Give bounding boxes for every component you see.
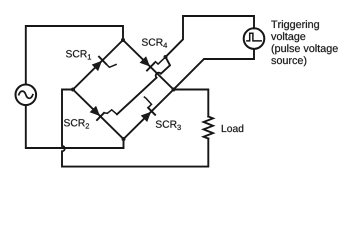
wire: bridge left node to bottom rail (hop over AC rail) to load bottom [62,90,208,167]
wire: AC top lead, top rail, down to bridge top node [26,26,123,84]
wire: AC bottom lead, lower rail to bridge bottom node [26,105,124,148]
SCR1 cathode bar [99,57,106,64]
bridge diamond wires (sides carry SCR1 top-left, SCR2 bottom-left, SCR3 bottom-right, SCR4 top-right) [73,40,174,139]
SCR2 cathode bar [97,113,104,120]
label Triggering voltage line 2 [271,32,305,42]
junction dot: bridge right node [172,88,176,92]
junction dot: gate wire junction [164,55,168,59]
SCR1 thyristor triangle [92,61,102,71]
SCR3 thyristor triangle [141,112,151,122]
label SCR2 [64,119,89,128]
SCR4 thyristor triangle [140,56,150,66]
label SCR4 [142,39,167,48]
SCR4 gate lead [154,57,166,64]
pulse source U1 (triggering voltage) [244,28,265,49]
label Triggering voltage line 3 [272,44,338,54]
junction dot: bridge bottom node [122,137,126,141]
junction dot: bridge left node [71,88,75,92]
label Triggering voltage line 1 [271,20,319,30]
junction dot: bridge top node [121,38,125,42]
SCR3 gate lead [144,97,151,108]
SCR3 cathode bar [148,108,155,115]
SCR2 thyristor triangle [90,106,100,116]
wire: bridge right node to load top [174,90,209,117]
label SCR1 [66,50,91,59]
label SCR3 [156,121,181,131]
label Load [222,125,243,133]
SCR1 gate lead [106,64,116,67]
AC source V1 [15,85,36,106]
SCR4 cathode bar [147,63,154,70]
wire: pulse source top terminal, top-right rail, down, diagonal to gate junction dot [166,16,255,57]
resistor Load [204,117,213,139]
wire: gate bus from junction dot to SCR2 gate [117,57,170,114]
label Triggering voltage line 4 [271,56,306,66]
SCR2 gate lead [104,110,117,115]
wire: pulse source bottom terminal, mid rail, diagonal to bridge right node [174,49,255,90]
